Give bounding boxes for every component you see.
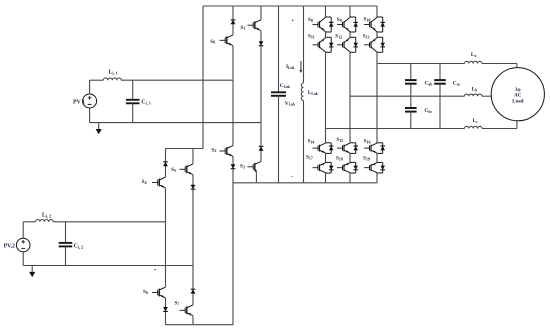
svg-text:S12: S12 <box>335 34 342 40</box>
svg-text:S10: S10 <box>364 16 371 22</box>
svg-text:S13: S13 <box>363 34 370 40</box>
svg-text:S15: S15 <box>336 137 343 143</box>
svg-text:S1: S1 <box>241 25 246 31</box>
svg-text:3φ: 3φ <box>515 88 521 93</box>
svg-text:PV,2: PV,2 <box>4 244 15 250</box>
svg-text:Ci, 2: Ci, 2 <box>74 244 84 250</box>
svg-text:S5: S5 <box>171 167 176 173</box>
svg-text:S9: S9 <box>337 17 342 23</box>
svg-text:S19: S19 <box>363 156 370 162</box>
svg-text:Load: Load <box>512 99 523 104</box>
svg-text:+: + <box>291 18 294 24</box>
svg-text:S17: S17 <box>306 155 313 161</box>
svg-text:S14: S14 <box>308 138 315 144</box>
svg-text:S16: S16 <box>364 138 371 144</box>
svg-text:S11: S11 <box>308 34 315 40</box>
svg-text:AC: AC <box>514 94 522 99</box>
svg-text:S7: S7 <box>175 300 180 306</box>
svg-text:PV 1: PV 1 <box>73 99 85 105</box>
svg-text:Ci, 1: Ci, 1 <box>141 100 151 106</box>
svg-text:S3: S3 <box>240 164 245 170</box>
svg-text:Li, 2: Li, 2 <box>42 213 51 219</box>
svg-text:S6: S6 <box>143 289 148 295</box>
svg-text:−: − <box>290 174 293 180</box>
svg-text:Li, 1: Li, 1 <box>109 69 118 75</box>
svg-text:S0: S0 <box>210 39 215 45</box>
svg-text:S4: S4 <box>142 179 147 185</box>
svg-text:S2: S2 <box>212 147 217 153</box>
svg-text:S8: S8 <box>308 17 313 23</box>
svg-text:S18: S18 <box>336 156 343 162</box>
